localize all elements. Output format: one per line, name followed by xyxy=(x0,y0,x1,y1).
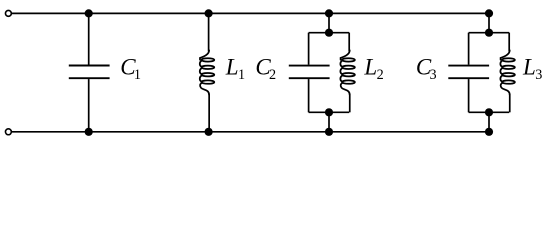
node tank1 rail bottom xyxy=(325,108,333,116)
wire tank1 top stub xyxy=(328,13,330,32)
svg-text:L1: L1 xyxy=(225,55,245,84)
svg-text:L2: L2 xyxy=(363,55,383,84)
capacitor C2 xyxy=(289,66,330,79)
wire tank2 top stub xyxy=(488,13,490,32)
wire C1 bottom lead xyxy=(88,79,90,132)
wire tank1 bottom stub xyxy=(328,112,330,132)
capacitor C3 xyxy=(448,66,489,79)
node tank1 top xyxy=(325,9,333,17)
wire C2 top lead xyxy=(308,33,310,65)
wire L3 bottom lead xyxy=(509,94,511,112)
wire top rail xyxy=(12,12,489,14)
terminal top-left xyxy=(5,10,11,16)
wire L1 bottom lead xyxy=(208,94,210,132)
wire C1 top lead xyxy=(88,13,90,64)
inductor L2 xyxy=(340,50,354,95)
wire tank1 top rail xyxy=(309,32,350,34)
svg-text:L3: L3 xyxy=(522,55,542,84)
svg-text:C2: C2 xyxy=(255,55,276,84)
inductor L3 xyxy=(500,50,514,95)
wire tank2 bottom rail xyxy=(469,111,510,113)
wire C3 bottom lead xyxy=(468,79,470,112)
node tank2 rail bottom xyxy=(485,108,493,116)
capacitor C1 xyxy=(69,66,110,79)
wire L2 bottom lead xyxy=(349,94,351,112)
svg-text:C1: C1 xyxy=(120,55,141,84)
wire L2 top lead xyxy=(348,33,350,52)
svg-text:C3: C3 xyxy=(416,55,437,84)
node tank1 bottom xyxy=(325,128,333,136)
wire L1 top lead xyxy=(208,13,210,51)
wire L3 top lead xyxy=(508,33,510,52)
node C1 top xyxy=(85,9,93,17)
node tank2 top xyxy=(485,9,493,17)
node L1 top xyxy=(205,9,213,17)
wire C2 bottom lead xyxy=(308,79,310,112)
node tank2 bottom xyxy=(485,128,493,136)
wire tank2 bottom stub xyxy=(488,112,490,132)
wire bottom rail xyxy=(12,131,489,133)
wire C3 top lead xyxy=(468,33,470,65)
node tank2 rail top xyxy=(485,29,493,37)
inductor L1 xyxy=(200,50,214,95)
node tank1 rail top xyxy=(325,29,333,37)
wire tank1 bottom rail xyxy=(309,111,350,113)
wire tank2 top rail xyxy=(469,32,510,34)
node L1 bottom xyxy=(205,128,213,136)
terminal bottom-left xyxy=(5,129,11,135)
node C1 bottom xyxy=(85,128,93,136)
